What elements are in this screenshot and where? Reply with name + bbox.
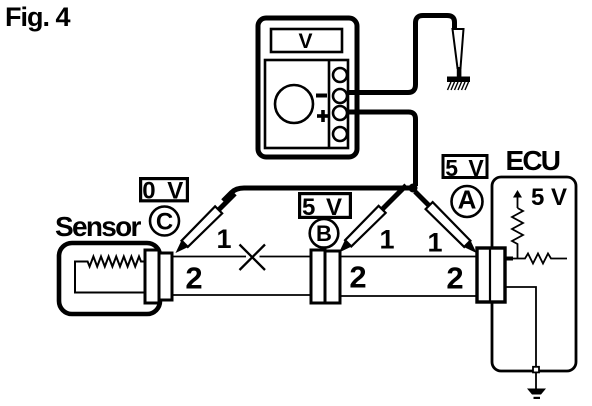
sensor body	[59, 243, 160, 314]
voltmeter terminal 3 (positive)	[333, 106, 347, 120]
svg-text:0 V: 0 V	[142, 178, 186, 205]
ECU connector	[477, 248, 505, 302]
svg-text:1: 1	[427, 228, 442, 258]
voltmeter display window	[271, 29, 342, 52]
wire 2: middle connector to ECU	[340, 295, 477, 297]
svg-text:1: 1	[216, 224, 231, 254]
sensor connector	[145, 250, 172, 303]
ground test probe (top right)	[453, 29, 464, 77]
svg-text:B: B	[316, 221, 332, 246]
svg-text:5 V: 5 V	[302, 194, 344, 221]
ECU pin 2 wire to ground	[505, 287, 536, 367]
wire 1: sensor to middle connector	[172, 256, 311, 258]
voltmeter terminal 2 (negative)	[333, 89, 347, 103]
svg-text:V: V	[298, 30, 312, 53]
ground surface symbol (top right)	[447, 77, 470, 91]
plus sign	[317, 110, 329, 122]
ECU body	[492, 177, 576, 371]
ECU internal 5 V supply arrow	[513, 190, 522, 208]
svg-text:5 V: 5 V	[531, 184, 567, 211]
break mark X on wire 1	[240, 245, 266, 271]
wire: positive lead from voltmeter down to junction	[347, 112, 416, 186]
wire: horizontal distribution wire to probe C	[223, 188, 412, 201]
circled letter B	[310, 219, 339, 248]
wire 1: middle connector to ECU	[340, 256, 477, 258]
middle connector	[311, 250, 340, 303]
voltmeter front panel	[265, 60, 348, 148]
svg-text:ECU: ECU	[506, 145, 560, 176]
svg-text:2: 2	[446, 261, 463, 296]
svg-text:5 V: 5 V	[445, 155, 486, 181]
ground symbol below ECU	[527, 373, 546, 400]
junction node of probe leads	[409, 184, 418, 193]
svg-text:1: 1	[379, 225, 394, 255]
minus sign	[316, 94, 327, 98]
ground node on ECU case	[533, 367, 539, 373]
label box 5 V (point A)	[443, 155, 487, 181]
wire: negative lead from voltmeter to ground probe	[347, 16, 455, 93]
wire 2: sensor to middle connector	[172, 294, 311, 296]
test probe A with lead to junction	[411, 188, 480, 257]
svg-text:Sensor: Sensor	[55, 211, 142, 242]
svg-text:Fig. 4: Fig. 4	[5, 2, 70, 32]
ECU internal pull-up resistor (vertical)	[512, 208, 523, 259]
label box 5 V (point B)	[300, 194, 351, 221]
svg-text:C: C	[156, 209, 173, 236]
svg-text:2: 2	[185, 261, 202, 296]
ECU pin 1 lead with internal resistor (horizontal)	[504, 254, 567, 264]
voltmeter terminal 1	[333, 68, 347, 82]
voltmeter V1 body	[258, 18, 357, 157]
test probe B with lead to junction	[335, 182, 409, 256]
circled letter C	[150, 207, 179, 236]
svg-text:2: 2	[349, 260, 366, 295]
svg-text:A: A	[458, 185, 477, 215]
sensor internal resistor	[75, 257, 145, 293]
voltmeter dial	[275, 85, 313, 123]
voltmeter terminal 4	[333, 127, 347, 141]
test probe C	[172, 190, 238, 256]
circled letter A	[452, 185, 483, 218]
label box 0 V (point C)	[141, 178, 188, 205]
